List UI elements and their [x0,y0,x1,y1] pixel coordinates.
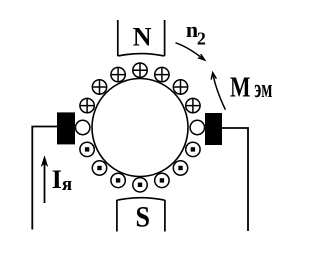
svg-text:N: N [133,23,152,52]
svg-text:S: S [136,201,151,234]
svg-text:Mэм: Mэм [230,72,272,104]
svg-text:2: 2 [197,29,206,49]
svg-text:Iя: Iя [52,165,72,195]
